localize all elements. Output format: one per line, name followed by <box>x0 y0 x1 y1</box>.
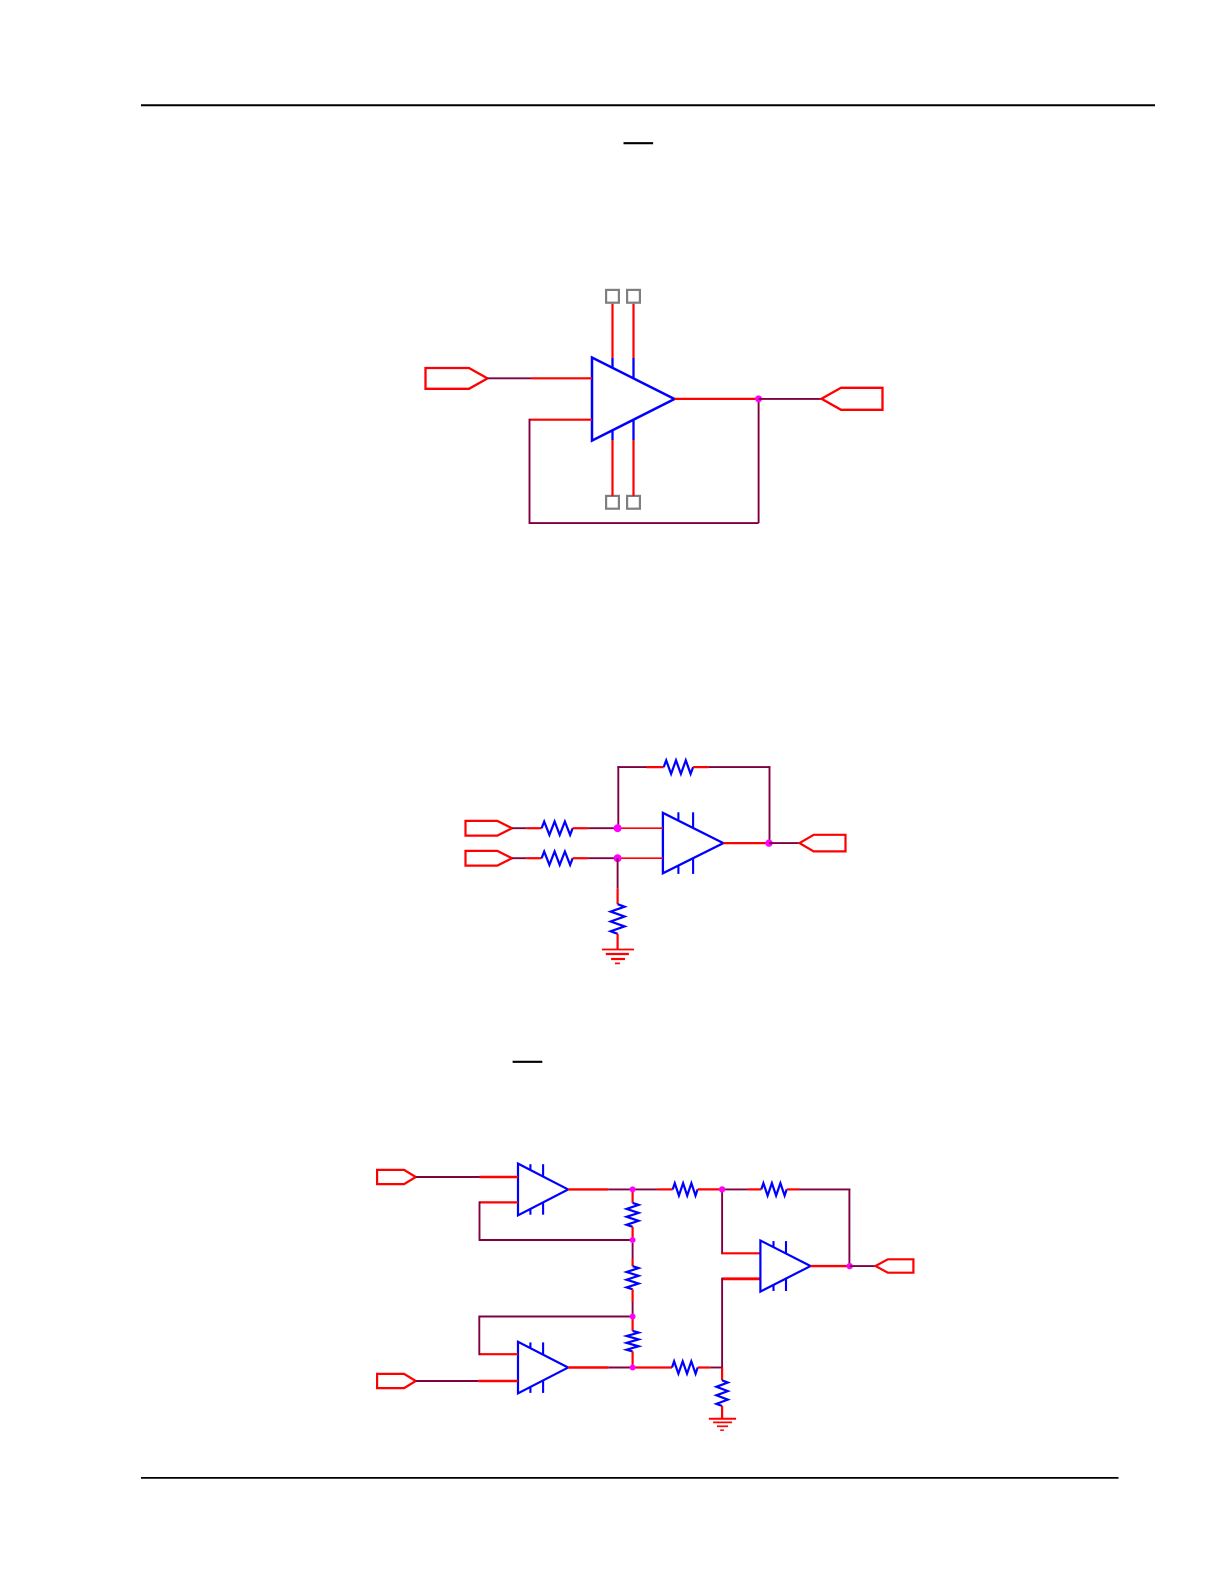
wire feedback top <box>800 1188 851 1190</box>
wire feedback top <box>709 766 771 768</box>
lead R3 right <box>693 766 709 768</box>
pin stub V- b A3 <box>785 1279 787 1291</box>
op-amp A2 <box>518 1342 568 1394</box>
input connector J4 <box>466 851 513 866</box>
lead R6 top <box>631 1259 633 1267</box>
wire U1 output <box>675 398 759 400</box>
pin stub V- a U2 <box>677 866 679 874</box>
wire A2 feedback vertical <box>478 1317 480 1356</box>
ground GND1 bar 2 <box>606 953 629 955</box>
junction node F <box>719 1186 725 1192</box>
pin stub V- a A3 <box>772 1285 774 1291</box>
wire feedback into - input A2 <box>479 1353 518 1355</box>
ground GND2 bar 2 <box>713 1421 732 1423</box>
lead R9 left <box>748 1188 762 1190</box>
junction node OUT2 <box>765 839 772 846</box>
lead R6 bottom <box>631 1289 633 1302</box>
wire node G2 to R10 <box>633 1366 672 1368</box>
wire node B to - input U2 <box>618 857 663 859</box>
power port square P4 (V- b) <box>627 496 640 509</box>
junction node OUT1 <box>755 395 762 402</box>
lead R4 top <box>616 888 618 904</box>
wire into node F <box>719 1188 722 1190</box>
resistor R10 <box>672 1361 698 1373</box>
ground GND1 bar 3 <box>611 958 625 960</box>
lead R1 right <box>573 827 589 829</box>
input connector J3 <box>466 821 513 836</box>
ground GND2 bar 1 <box>709 1418 736 1420</box>
wire A2 output to node G2 <box>609 1367 633 1369</box>
output connector J2 <box>822 388 883 410</box>
wire feedback right vertical <box>758 399 760 523</box>
pin stub V+ a U2 <box>677 812 679 820</box>
lead R1 left <box>526 827 541 829</box>
lead R4 bottom <box>616 934 618 950</box>
resistor R4 (to ground) <box>611 904 625 934</box>
pin stub V+ b U2 <box>692 812 694 828</box>
footer rule <box>141 1477 1119 1479</box>
pin stub V- b U2 <box>692 858 694 874</box>
pin stub V+ b <box>632 358 634 378</box>
wire node F down <box>721 1189 723 1254</box>
junction node OUT3 <box>847 1263 853 1269</box>
wire A3 output <box>811 1265 850 1267</box>
wire J6 toward A1 <box>416 1176 480 1178</box>
wire feedback into - input U1 <box>530 419 593 421</box>
pin stub V+ b A1 <box>542 1164 544 1176</box>
lead R2 left <box>526 857 541 859</box>
lead R3 left <box>647 766 664 768</box>
resistor R8 <box>673 1183 698 1195</box>
pin stub V+ a <box>611 358 613 368</box>
wire J3 to R1 <box>512 827 526 829</box>
lead R7 bottom <box>631 1351 633 1367</box>
junction node B <box>614 854 622 862</box>
wire feedback left vertical <box>529 419 531 523</box>
pin stub V- a <box>611 430 613 440</box>
wire to J2 <box>759 398 822 400</box>
lead R8 right <box>698 1188 719 1190</box>
wire into + input A3 <box>722 1252 760 1254</box>
lead R7 top <box>631 1317 633 1331</box>
overline fragment (figure 1 caption) <box>624 142 654 144</box>
pin stub V+ a A3 <box>772 1241 774 1247</box>
op-amp A3 <box>760 1241 810 1292</box>
resistor R1 <box>542 822 573 835</box>
wire into + input A1 <box>480 1176 519 1178</box>
pin stub V+ b A2 <box>542 1342 544 1354</box>
lead R5 bottom <box>631 1227 633 1240</box>
lead R5 top <box>631 1189 633 1203</box>
wire to J5 <box>769 842 800 844</box>
wire J4 to R2 <box>512 857 526 859</box>
wire node F right <box>725 1188 748 1190</box>
op-amp U1 <box>592 358 675 441</box>
wire A2 output <box>568 1366 609 1368</box>
ground GND1 bar 1 <box>602 949 634 951</box>
wire into - input A3 <box>722 1277 760 1280</box>
pin stub V- b A2 <box>542 1381 544 1393</box>
wire A1 feedback horizontal <box>479 1239 633 1241</box>
pin stub V+ a A1 <box>529 1164 531 1170</box>
lead R10 right <box>698 1366 711 1368</box>
lead R9 right <box>787 1188 800 1190</box>
lead R8 left <box>657 1188 672 1190</box>
pin stub V- a A1 <box>529 1209 531 1215</box>
resistor R5 <box>627 1203 639 1227</box>
wire into + input A2 <box>478 1380 518 1382</box>
pin stub V+ a A2 <box>529 1342 531 1348</box>
junction node C <box>630 1186 636 1192</box>
wire feedback right vertical <box>769 766 771 843</box>
wire into + input U1 <box>531 377 592 379</box>
wire V+ b <box>632 304 634 359</box>
wire V- b <box>632 440 634 496</box>
input connector J6 <box>377 1170 416 1184</box>
header rule <box>141 104 1155 106</box>
ground GND2 bar 4 <box>720 1429 724 1431</box>
output connector J8 <box>876 1259 914 1272</box>
wire R1 to node A <box>588 827 617 829</box>
power port square P1 (V+ a) <box>606 290 619 303</box>
ground GND1 bar 4 <box>615 962 620 964</box>
op-amp U2 <box>663 813 723 873</box>
wire node B down <box>617 858 619 888</box>
lead R2 right <box>573 857 589 859</box>
wire to J8 <box>850 1265 876 1267</box>
wire A2 feedback horizontal <box>478 1316 632 1318</box>
pin stub V- b A1 <box>542 1202 544 1214</box>
wire node G up from bottom <box>721 1278 723 1368</box>
resistor R3 (feedback) <box>664 760 693 774</box>
lead R11 top <box>721 1368 723 1381</box>
wire to node G <box>710 1367 722 1369</box>
wire J7 toward A2 <box>416 1380 479 1382</box>
junction node G2 <box>630 1365 636 1371</box>
input connector J7 <box>377 1374 416 1388</box>
wire J1 to node <box>488 377 532 379</box>
power port square P2 (V+ b) <box>627 290 640 303</box>
wire A1 feedback vertical <box>479 1201 481 1240</box>
wire node A up to feedback <box>617 766 619 828</box>
wire feedback down to node OUT3 <box>848 1189 850 1266</box>
wire feedback left <box>617 766 646 768</box>
wire node C right <box>633 1188 658 1190</box>
wire A1 output to node C <box>608 1188 632 1190</box>
wire node A to + input U2 <box>618 827 663 829</box>
wire feedback into - input A1 <box>480 1201 519 1203</box>
overline fragment (figure 2 caption) <box>513 1061 543 1063</box>
wire feedback bottom <box>529 522 759 524</box>
resistor R9 (A3 feedback) <box>761 1183 786 1195</box>
input connector J1 <box>426 368 488 389</box>
wire node D down <box>632 1243 634 1259</box>
op-amp A1 <box>518 1164 568 1216</box>
wire V- a <box>611 440 613 496</box>
ground GND2 bar 3 <box>717 1425 728 1427</box>
resistor R6 (gain) <box>627 1266 639 1289</box>
junction node E <box>630 1314 636 1320</box>
resistor R11 (to ground) <box>716 1380 727 1406</box>
wire U2 output <box>723 842 769 844</box>
pin stub V- b <box>632 420 634 440</box>
resistor R7 <box>627 1331 639 1352</box>
wire to node E <box>632 1302 634 1317</box>
pin stub V+ b A3 <box>785 1241 787 1253</box>
junction node D <box>630 1237 636 1243</box>
output connector J5 <box>800 835 846 852</box>
lead R11 bottom <box>721 1406 723 1419</box>
wire A1 output <box>568 1188 608 1190</box>
pin stub V- a A2 <box>529 1387 531 1393</box>
power port square P3 (V- a) <box>606 496 619 509</box>
resistor R2 <box>542 852 573 865</box>
wire R2 to node B <box>588 857 617 859</box>
junction node A <box>614 824 622 832</box>
wire V+ a <box>611 304 613 359</box>
